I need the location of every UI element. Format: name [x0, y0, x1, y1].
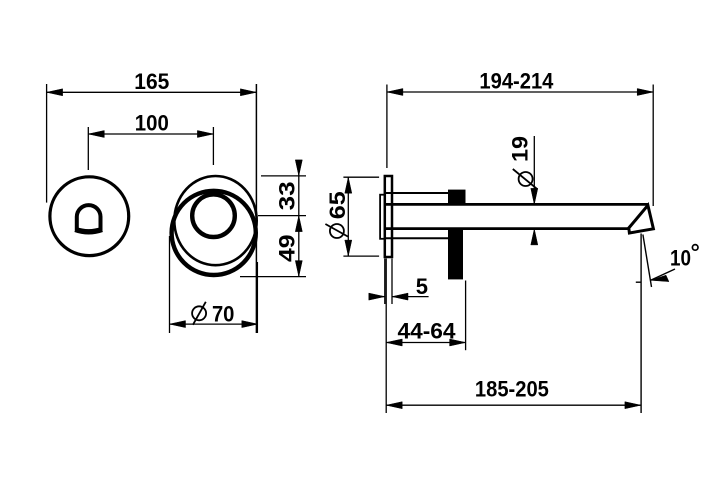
spout tip wedge: [627, 205, 653, 233]
svg-text:165: 165: [134, 69, 169, 94]
svg-text:49: 49: [274, 234, 299, 262]
dimension 33 / 49: [240, 160, 306, 277]
svg-text:19: 19: [508, 136, 533, 162]
svg-text:194-214: 194-214: [479, 69, 554, 94]
dimension 44-64: [386, 259, 465, 414]
dimension d65: [343, 177, 379, 256]
label d70 diameter symbol: [192, 302, 234, 327]
handle escutcheon circle: [50, 177, 129, 256]
svg-text:33: 33: [274, 181, 299, 210]
spout bore circle (inner): [192, 194, 235, 237]
in-wall body (side view): [380, 195, 385, 239]
label d19 diameter symbol: [508, 136, 538, 189]
dimension 165: [47, 84, 257, 333]
dimension 5: [369, 259, 429, 305]
flange (side view): [385, 176, 392, 257]
spout escutcheon ellipse (thin, upper): [174, 176, 256, 265]
svg-text:5: 5: [416, 274, 428, 299]
dimension 194-214: [387, 85, 653, 207]
dimension d70: [170, 236, 258, 333]
label 10deg: [670, 245, 698, 271]
svg-text:185-205: 185-205: [475, 376, 549, 401]
svg-text:65: 65: [325, 191, 350, 219]
dimension 10deg: [636, 235, 675, 288]
dimension d19: [531, 136, 538, 245]
svg-text:44-64: 44-64: [398, 318, 457, 343]
svg-text:100: 100: [135, 111, 169, 136]
svg-text:70: 70: [212, 302, 235, 327]
spout tube: [385, 204, 648, 228]
spout outer circle (thick, lower): [172, 191, 256, 275]
svg-text:10: 10: [670, 245, 691, 270]
label d65 diameter symbol: [325, 191, 350, 238]
handle lever D-shape: [75, 205, 102, 232]
housing lines: [385, 193, 448, 238]
dimension 185-205: [386, 234, 641, 414]
dimension 100: [88, 127, 213, 170]
wall section upper (black): [448, 190, 466, 204]
wall section lower (black): [448, 228, 463, 280]
